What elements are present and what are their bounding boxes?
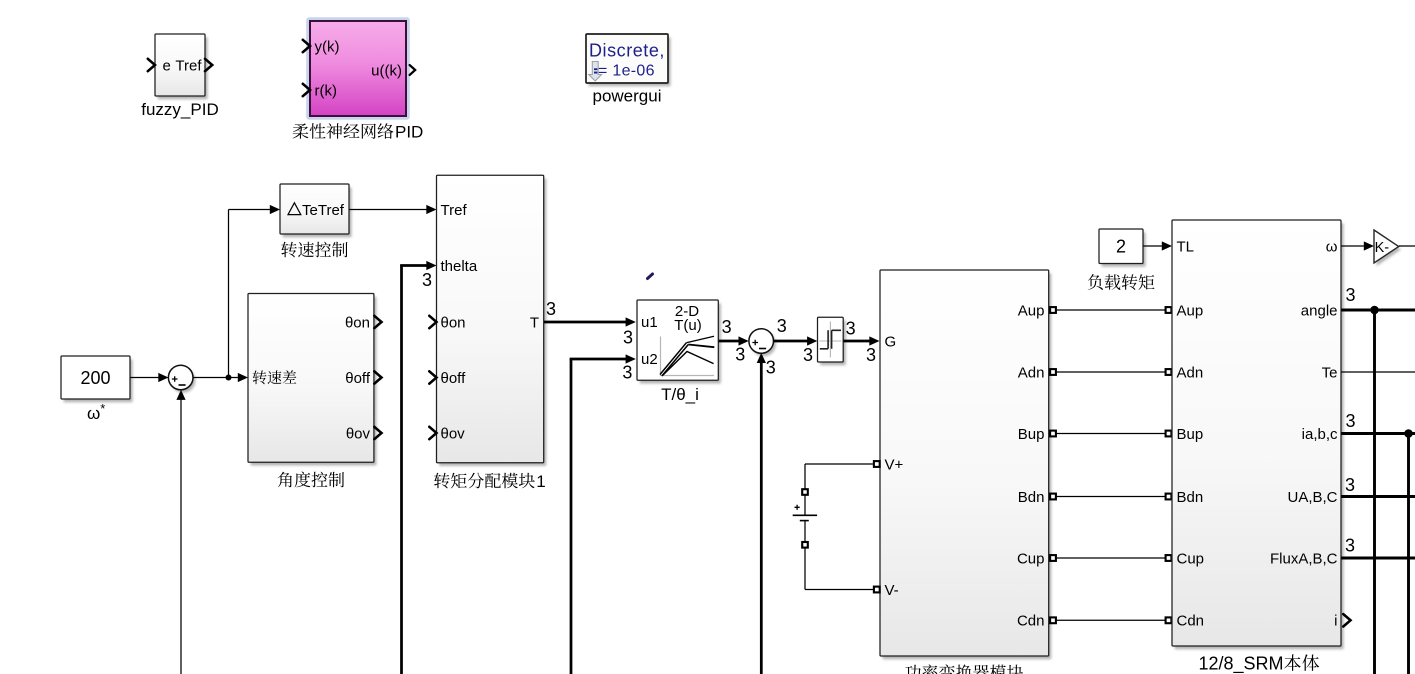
svg-text:Tref: Tref bbox=[175, 57, 202, 74]
junction node bbox=[226, 375, 232, 381]
svg-text:θon: θon bbox=[345, 314, 370, 331]
block 12/8_SRM subsystem bbox=[1172, 220, 1344, 649]
label 角度控制 bbox=[278, 472, 344, 488]
block 角度控制 subsystem bbox=[248, 294, 377, 466]
svg-text:Adn: Adn bbox=[1018, 364, 1045, 381]
svg-text:Cup: Cup bbox=[1017, 550, 1045, 567]
label 功率变换器模块 bbox=[905, 664, 1023, 674]
wire 2 to TL bbox=[1143, 245, 1163, 247]
svg-text:Bup: Bup bbox=[1018, 426, 1045, 443]
svg-text:200: 200 bbox=[80, 368, 110, 388]
wire 200 to sum1 bbox=[131, 377, 161, 379]
svg-text:= 1e-06: = 1e-06 bbox=[598, 63, 655, 80]
SRM i output chevron bbox=[1343, 614, 1350, 626]
svg-text:TL: TL bbox=[1177, 238, 1195, 255]
wire UA,B,C (thick) bbox=[1341, 495, 1415, 498]
svg-text:ia,b,c: ia,b,c bbox=[1302, 426, 1338, 443]
wire FluxA,B,C (thick) bbox=[1341, 557, 1415, 560]
svg-text:V+: V+ bbox=[885, 456, 904, 473]
block fuzzy_PID subsystem bbox=[155, 34, 208, 99]
svg-text:K-: K- bbox=[1375, 240, 1390, 256]
block relay (hysteresis) bbox=[818, 317, 846, 365]
junction dot iabc bbox=[1404, 429, 1413, 438]
DC voltage source (battery) bbox=[793, 464, 874, 590]
thick wire lookup out to sum2 bbox=[719, 340, 741, 343]
wire omega to gain bbox=[1341, 245, 1366, 247]
block 转矩分配模块1 subsystem bbox=[437, 175, 547, 466]
powergui arrow icon bbox=[589, 62, 602, 82]
pink input chevron r(k) bbox=[303, 84, 310, 96]
label 柔性神经网络PID bbox=[293, 123, 394, 139]
svg-text:Cup: Cup bbox=[1177, 550, 1205, 567]
fuzzy_PID input chevron bbox=[148, 59, 155, 71]
svg-text:Cdn: Cdn bbox=[1017, 613, 1045, 630]
svg-text:Discrete,: Discrete, bbox=[589, 41, 665, 61]
svg-text:3: 3 bbox=[1345, 475, 1355, 495]
pink input chevron y(k) bbox=[303, 40, 310, 52]
svg-text:FluxA,B,C: FluxA,B,C bbox=[1270, 550, 1338, 567]
wire Te bbox=[1341, 371, 1415, 373]
feedback wire into sum2 bbox=[760, 362, 763, 674]
svg-text:3: 3 bbox=[623, 327, 633, 347]
svg-text:θoff: θoff bbox=[345, 370, 371, 387]
lookup icon bbox=[661, 337, 715, 376]
wire Cup bbox=[1056, 557, 1165, 559]
svg-text:thelta: thelta bbox=[441, 258, 478, 275]
angle-control output chevrons bbox=[374, 316, 381, 328]
wire Bup bbox=[1056, 433, 1165, 435]
port label 转速差 bbox=[253, 370, 297, 384]
svg-text:3: 3 bbox=[1345, 411, 1355, 431]
svg-text:3: 3 bbox=[777, 316, 787, 336]
triangle glyph bbox=[288, 203, 301, 215]
svg-text:3: 3 bbox=[622, 362, 632, 382]
relay icon bbox=[820, 322, 842, 358]
label 转矩分配模块1 bbox=[434, 473, 535, 489]
svg-text:i: i bbox=[1334, 613, 1337, 630]
svg-text:3: 3 bbox=[422, 270, 432, 290]
svg-text:Te: Te bbox=[1322, 364, 1338, 381]
svg-text:1: 1 bbox=[536, 472, 545, 491]
svg-text:T/θ_i: T/θ_i bbox=[661, 385, 699, 404]
svg-text:u1: u1 bbox=[641, 314, 658, 331]
V+ port square bbox=[874, 461, 880, 467]
block 柔性神经网络PID (pink, selected halo) bbox=[306, 17, 410, 120]
label 转速控制 bbox=[281, 242, 347, 258]
svg-text:3: 3 bbox=[846, 318, 856, 338]
svg-text:θoff: θoff bbox=[441, 370, 467, 387]
svg-text:θov: θov bbox=[346, 425, 371, 442]
svg-text:12/8_SRM: 12/8_SRM bbox=[1199, 654, 1284, 674]
wire Adn bbox=[1056, 371, 1165, 373]
V- port square bbox=[874, 587, 880, 593]
thick wire T to u1 bbox=[544, 321, 626, 324]
branch wire up to TeTref bbox=[228, 210, 230, 378]
svg-text:Bdn: Bdn bbox=[1018, 489, 1045, 506]
svg-text:3: 3 bbox=[735, 344, 745, 364]
svg-text:Aup: Aup bbox=[1018, 302, 1045, 319]
block 转速控制 subsystem (TeTref) bbox=[280, 184, 352, 237]
wire gain out bbox=[1399, 245, 1415, 247]
sum sum2 bbox=[749, 329, 776, 357]
svg-text:r(k): r(k) bbox=[315, 82, 338, 99]
svg-text:u2: u2 bbox=[641, 351, 658, 368]
block 2-D lookup table T/θ_i bbox=[637, 300, 721, 384]
svg-text:3: 3 bbox=[546, 299, 556, 319]
svg-text:ω: ω bbox=[1326, 238, 1338, 255]
svg-text:u((k): u((k) bbox=[371, 62, 402, 79]
block constant 2 (load torque) bbox=[1099, 229, 1146, 267]
thick wire thelta feedback bbox=[400, 266, 403, 674]
svg-text:TeTref: TeTref bbox=[302, 202, 345, 219]
svg-text:Cdn: Cdn bbox=[1177, 613, 1205, 630]
wire TeTref to Tref bbox=[350, 209, 429, 211]
svg-text:Bdn: Bdn bbox=[1177, 489, 1204, 506]
svg-text:3: 3 bbox=[766, 357, 776, 377]
thick wire relay to G bbox=[843, 340, 870, 343]
svg-text:T: T bbox=[530, 314, 539, 331]
svg-text:e: e bbox=[163, 57, 171, 74]
block constant 200 bbox=[61, 356, 133, 402]
svg-text:PID: PID bbox=[395, 123, 423, 142]
wire Aup bbox=[1056, 309, 1165, 311]
gain block K- bbox=[1374, 230, 1401, 266]
svg-text:Aup: Aup bbox=[1177, 302, 1204, 319]
wire sum1 to angle-control with branch bbox=[193, 377, 240, 379]
svg-text:2: 2 bbox=[1116, 236, 1126, 256]
svg-text:Bup: Bup bbox=[1177, 426, 1204, 443]
svg-text:θon: θon bbox=[441, 314, 466, 331]
feedback wire into sum1 bbox=[180, 398, 182, 674]
svg-text:G: G bbox=[885, 333, 897, 350]
block 功率变换器模块 subsystem bbox=[880, 270, 1051, 659]
svg-text:Adn: Adn bbox=[1177, 364, 1204, 381]
stray annotation mark bbox=[648, 274, 653, 279]
torque block input chevrons bbox=[429, 316, 436, 328]
wire Cdn bbox=[1056, 619, 1165, 621]
wire ia,b,c (thick) bbox=[1341, 432, 1415, 435]
pink output chevron bbox=[410, 65, 416, 75]
svg-text:angle: angle bbox=[1301, 302, 1338, 319]
fuzzy_PID output chevron bbox=[205, 59, 212, 71]
junction dot angle bbox=[1370, 306, 1379, 315]
svg-text:3: 3 bbox=[1345, 535, 1355, 555]
svg-text:V-: V- bbox=[885, 582, 899, 599]
vertical bus 2 bbox=[1407, 434, 1410, 674]
svg-text:3: 3 bbox=[1345, 285, 1355, 305]
svg-text:fuzzy_PID: fuzzy_PID bbox=[141, 100, 218, 119]
wire angle (thick) bbox=[1341, 309, 1415, 312]
wire Bdn bbox=[1056, 496, 1165, 498]
vertical bus 1 bbox=[1373, 310, 1376, 674]
svg-text:powergui: powergui bbox=[593, 87, 662, 106]
svg-text:θov: θov bbox=[441, 425, 466, 442]
svg-text:Tref: Tref bbox=[441, 202, 468, 219]
thick wire sum2 to relay bbox=[774, 340, 809, 343]
svg-text:3: 3 bbox=[866, 345, 876, 365]
sum sum1 bbox=[168, 365, 195, 393]
block powergui bbox=[586, 34, 671, 86]
label 负载转矩 bbox=[1088, 274, 1155, 290]
svg-text:T(u): T(u) bbox=[674, 317, 702, 334]
thick wire u2 feedback bbox=[570, 359, 573, 674]
svg-text:UA,B,C: UA,B,C bbox=[1287, 489, 1337, 506]
svg-text:3: 3 bbox=[722, 317, 732, 337]
svg-text:y(k): y(k) bbox=[315, 38, 340, 55]
svg-text:3: 3 bbox=[803, 345, 813, 365]
